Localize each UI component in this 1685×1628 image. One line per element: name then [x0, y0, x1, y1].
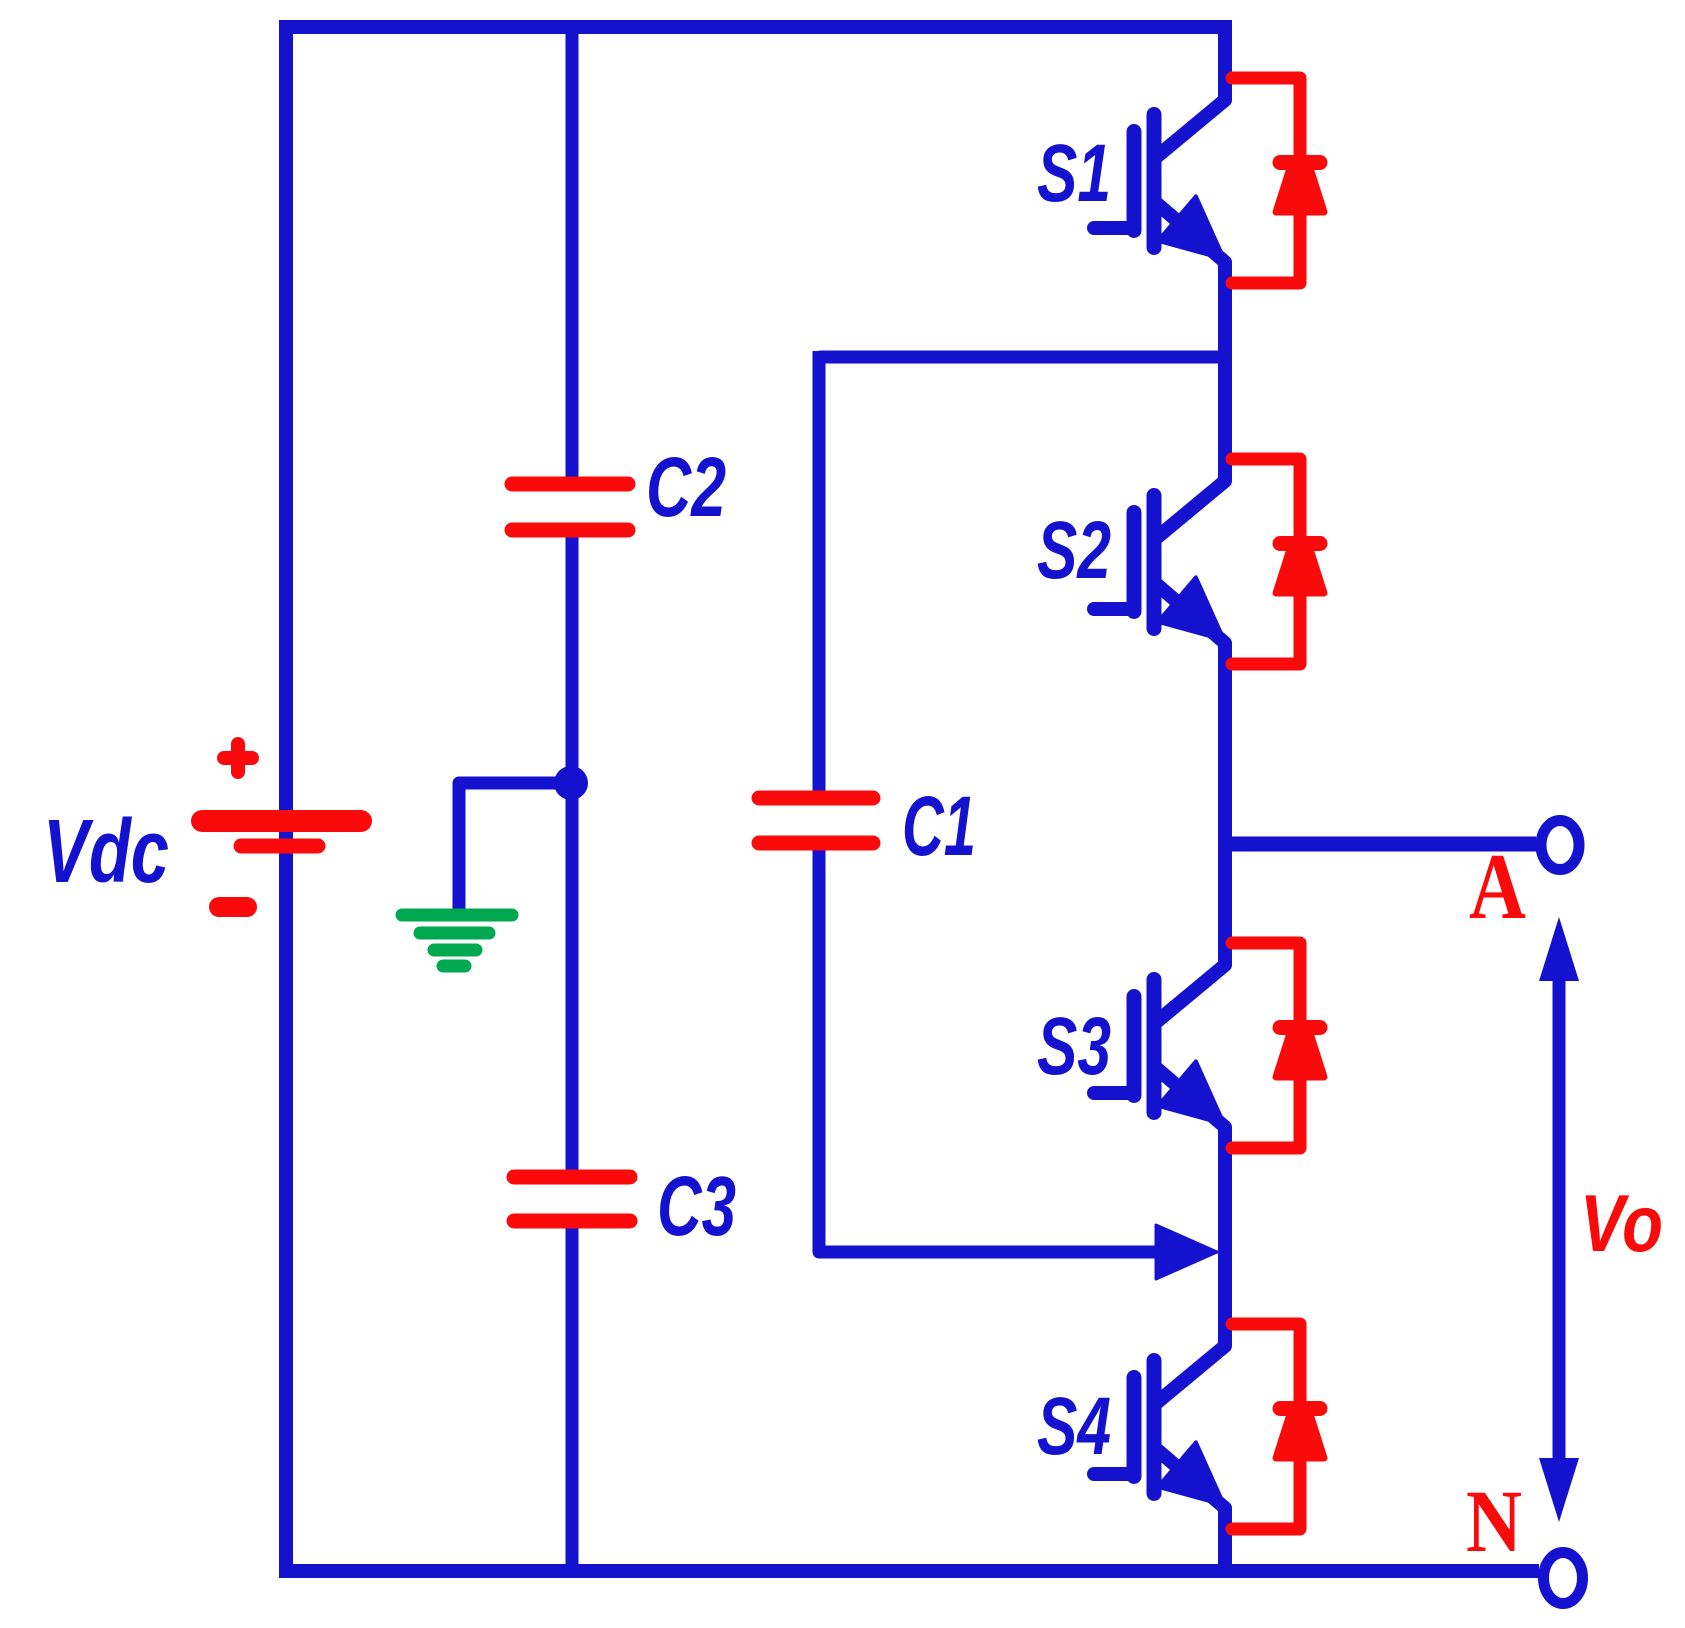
wire: left bus (Vdc branch): [279, 20, 293, 1578]
wire: bottom bus: [279, 1564, 1539, 1578]
diode of S3: [1232, 943, 1328, 1148]
diode of S1: [1232, 78, 1328, 283]
wire: middle branch between C2 and C3: [566, 530, 579, 1177]
transistor S2: [1094, 477, 1225, 647]
svg-text:S1: S1: [1037, 128, 1111, 219]
terminal A circle: [1541, 821, 1579, 870]
capacitor C1: [759, 798, 873, 843]
ground: [402, 915, 512, 966]
svg-text:A: A: [1469, 835, 1526, 939]
Vo measurement arrow: [1539, 917, 1579, 1522]
wire: output to terminal A: [1225, 837, 1536, 852]
wire: column segment bottom: [1218, 1508, 1232, 1571]
transistor S1: [1094, 96, 1225, 266]
wire: column segment S2-S3: [1218, 643, 1232, 965]
arrowhead into node between S3 and S4: [1156, 1225, 1217, 1279]
svg-text:C1: C1: [902, 779, 976, 873]
wire: C1 branch vertical lower and bottom horizontal: [819, 850, 1160, 1252]
wire: C1 branch vertical upper: [813, 351, 826, 791]
transistor S4: [1094, 1342, 1225, 1512]
capacitor C3: [514, 1177, 630, 1221]
wire: top bus: [279, 20, 1232, 34]
wire: column segment S1-S2: [1218, 262, 1232, 481]
svg-text:N: N: [1466, 1473, 1522, 1571]
terminal N circle: [1544, 1553, 1583, 1604]
wire: switch column segment top: [1218, 21, 1232, 100]
wire: ground branch: [459, 783, 571, 915]
svg-text:C2: C2: [646, 440, 726, 534]
svg-text:Vo: Vo: [1580, 1179, 1663, 1269]
wire: middle branch upper (top wire to C2): [566, 21, 579, 484]
svg-text:S3: S3: [1037, 1001, 1111, 1092]
svg-text:C3: C3: [657, 1159, 736, 1253]
transistor S3: [1094, 961, 1225, 1131]
wire: column segment S3-S4: [1218, 1127, 1232, 1346]
svg-text:Vdc: Vdc: [43, 802, 169, 902]
node: junction dot on middle branch: [554, 766, 588, 800]
capacitor C2: [512, 484, 628, 530]
battery Vdc: [202, 744, 361, 907]
diode of S4: [1232, 1324, 1328, 1529]
svg-text:S2: S2: [1037, 505, 1111, 596]
svg-text:S4: S4: [1037, 1381, 1111, 1472]
wire: middle branch lower (C3 to bottom wire): [566, 1221, 579, 1571]
wire: C1 branch top horizontal: [819, 351, 1229, 364]
diode of S2: [1232, 459, 1328, 664]
